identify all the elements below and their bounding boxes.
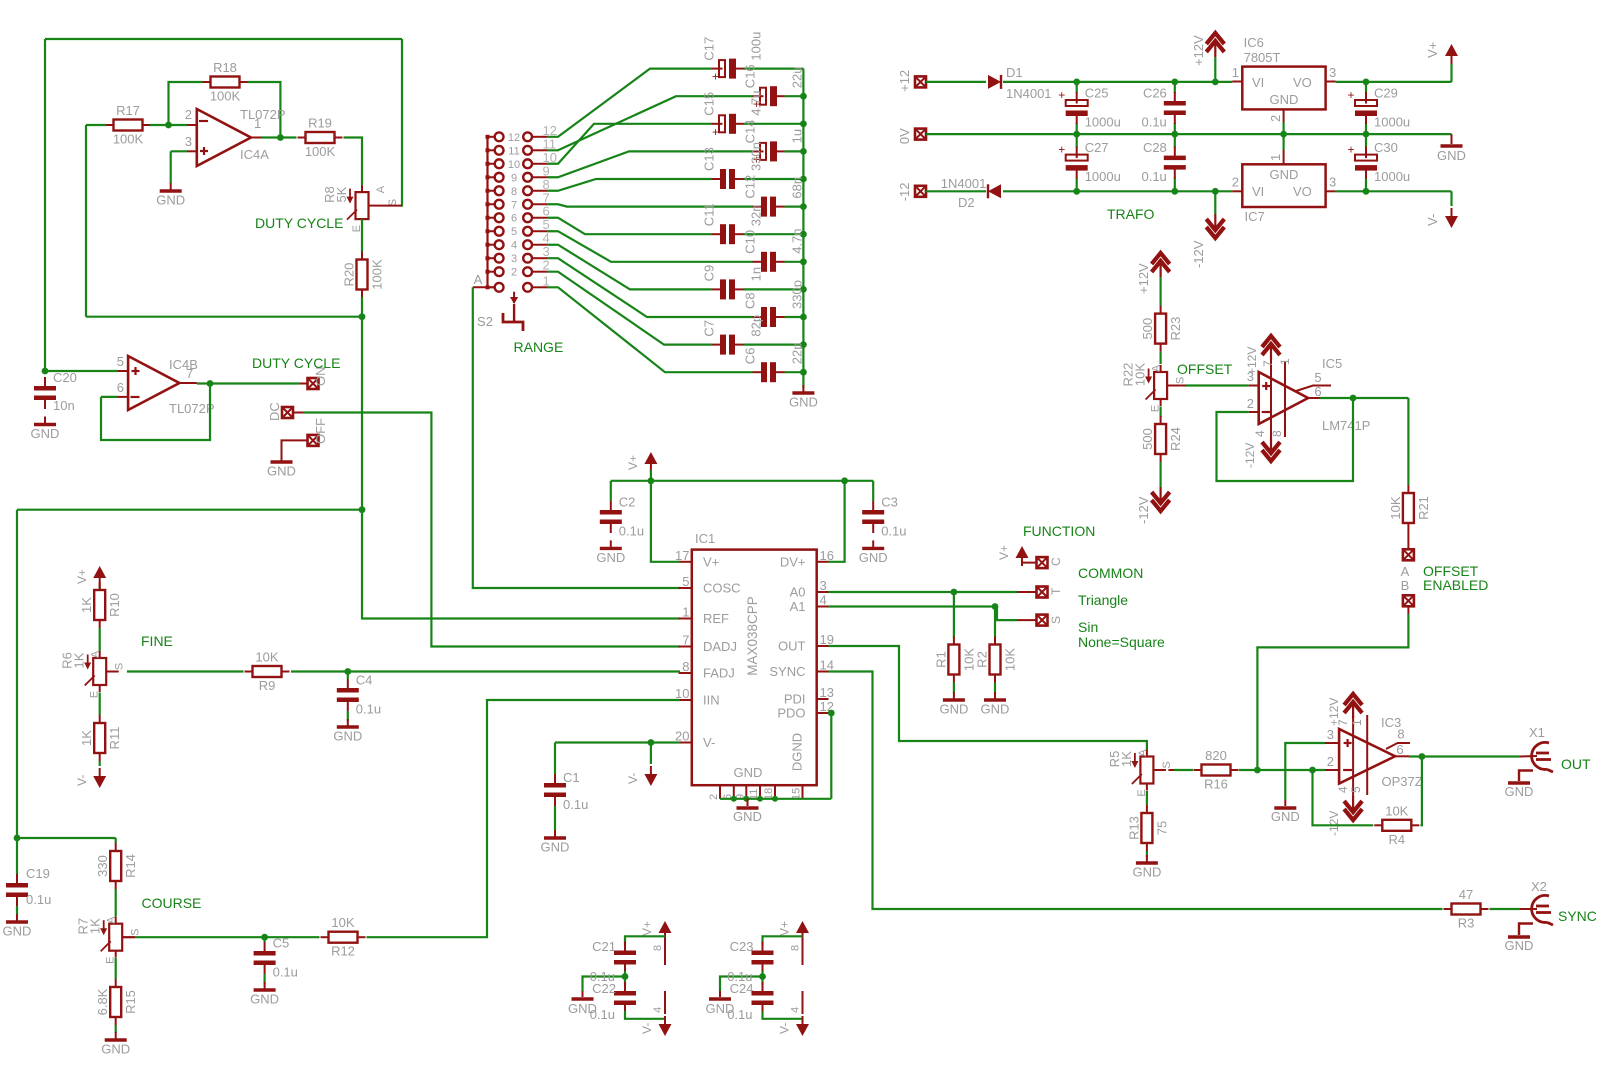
svg-text:10K: 10K [1388,496,1403,519]
svg-text:A: A [1401,564,1410,579]
svg-text:32n: 32n [749,204,764,226]
svg-text:C14: C14 [743,120,758,144]
svg-text:2: 2 [708,794,720,800]
svg-text:5: 5 [1349,786,1363,793]
svg-text:R20: R20 [342,263,357,287]
svg-text:C16: C16 [743,64,758,88]
svg-text:GND: GND [31,426,60,441]
svg-text:C15: C15 [702,92,717,116]
svg-text:V-: V- [703,735,715,750]
svg-text:GND: GND [1270,92,1299,107]
svg-text:5: 5 [117,354,124,369]
svg-text:V+: V+ [626,455,640,470]
svg-text:6: 6 [511,213,517,225]
svg-text:C13: C13 [702,147,717,171]
svg-text:R9: R9 [259,678,276,693]
svg-text:R16: R16 [1204,777,1228,792]
svg-text:GND: GND [596,550,625,565]
svg-text:C26: C26 [1143,86,1167,101]
svg-text:3: 3 [1327,727,1334,742]
svg-text:A: A [1137,749,1149,757]
svg-text:A: A [1151,364,1163,372]
svg-text:FUNCTION: FUNCTION [1023,523,1095,539]
svg-text:4: 4 [790,1007,802,1013]
svg-text:B: B [1401,578,1410,593]
svg-text:0V: 0V [897,128,912,144]
svg-text:10K: 10K [255,650,278,665]
svg-text:2: 2 [1327,754,1334,769]
svg-text:3: 3 [511,253,517,265]
svg-text:1000u: 1000u [1374,115,1410,130]
svg-text:GND: GND [333,729,362,744]
svg-text:IIN: IIN [703,693,720,708]
svg-text:C29: C29 [1374,86,1398,101]
svg-text:7805T: 7805T [1244,50,1281,65]
svg-text:330: 330 [95,855,110,877]
svg-text:2: 2 [185,107,192,122]
svg-text:A1: A1 [790,599,806,614]
svg-text:R12: R12 [331,944,355,959]
svg-text:5: 5 [1314,370,1321,385]
svg-text:S: S [1175,377,1187,384]
svg-text:FINE: FINE [141,633,173,649]
svg-text:10: 10 [508,159,520,171]
svg-text:GND: GND [1505,784,1534,799]
svg-text:1: 1 [1232,65,1239,80]
svg-text:2: 2 [1247,396,1254,411]
svg-text:+12V: +12V [1245,347,1259,375]
svg-text:1N4001: 1N4001 [1006,86,1052,101]
svg-text:A: A [474,272,483,287]
svg-text:1u: 1u [790,129,805,143]
svg-text:GND: GND [1505,938,1534,953]
svg-text:7: 7 [186,366,193,381]
svg-text:8: 8 [1270,430,1284,437]
svg-text:1: 1 [1278,358,1292,365]
svg-text:PDO: PDO [777,706,805,721]
svg-text:GND: GND [733,809,762,824]
svg-text:-12: -12 [897,183,912,202]
svg-text:10K: 10K [1003,648,1018,671]
svg-text:1: 1 [254,116,261,131]
svg-text:OFF: OFF [313,418,328,444]
svg-text:DADJ: DADJ [703,639,737,654]
svg-text:8: 8 [1397,727,1404,742]
svg-text:VI: VI [1252,184,1264,199]
svg-text:19: 19 [820,632,834,647]
svg-text:DUTY CYCLE: DUTY CYCLE [252,355,340,371]
svg-text:PDI: PDI [784,692,806,707]
svg-text:GND: GND [1437,148,1466,163]
svg-text:0.1u: 0.1u [1141,115,1166,130]
svg-text:V-: V- [75,775,89,786]
svg-text:1: 1 [1350,719,1364,726]
svg-text:REF: REF [703,611,729,626]
svg-text:V-: V- [778,1023,792,1034]
svg-text:-12V: -12V [1327,811,1341,836]
svg-text:1n: 1n [749,267,764,281]
svg-text:IC5: IC5 [1322,356,1342,371]
svg-text:0.1u: 0.1u [1141,169,1166,184]
svg-text:+12V: +12V [1327,698,1341,726]
svg-text:7: 7 [511,199,517,211]
svg-text:GND: GND [250,992,279,1007]
svg-text:10K: 10K [1385,803,1408,818]
svg-text:47: 47 [1459,887,1473,902]
svg-text:C9: C9 [702,265,717,282]
svg-text:3: 3 [1329,175,1336,190]
svg-text:17: 17 [675,548,689,563]
svg-text:1: 1 [1268,154,1283,161]
svg-text:GND: GND [267,464,296,479]
svg-text:-12V: -12V [1243,443,1257,468]
svg-text:2: 2 [1232,175,1239,190]
svg-text:V+: V+ [1425,42,1440,58]
svg-text:330p: 330p [790,280,805,309]
svg-text:C19: C19 [26,866,50,881]
svg-text:DV+: DV+ [780,554,806,569]
svg-text:C7: C7 [702,320,717,337]
svg-text:R1: R1 [933,651,948,668]
svg-text:RANGE: RANGE [514,339,564,355]
svg-text:GND: GND [1270,167,1299,182]
svg-text:C1: C1 [563,770,580,785]
svg-text:C11: C11 [702,203,717,226]
svg-text:D1: D1 [1006,65,1023,80]
svg-text:4: 4 [1336,786,1350,793]
svg-text:OUT: OUT [778,639,806,654]
svg-text:13: 13 [820,685,834,700]
svg-text:2: 2 [1268,115,1283,122]
svg-text:0.1u: 0.1u [727,1007,752,1022]
svg-text:IC4A: IC4A [240,147,269,162]
svg-text:IC6: IC6 [1244,35,1264,50]
svg-text:0.1u: 0.1u [356,702,381,717]
svg-text:T: T [1049,587,1063,595]
svg-text:8: 8 [652,945,664,951]
svg-text:C22: C22 [592,981,616,996]
svg-text:0.1u: 0.1u [619,524,644,539]
svg-text:R4: R4 [1388,832,1405,847]
svg-text:GND: GND [3,924,32,939]
svg-text:8: 8 [511,186,517,198]
svg-text:3: 3 [820,578,827,593]
svg-text:IC7: IC7 [1245,209,1265,224]
svg-text:COURSE: COURSE [142,895,202,911]
svg-text:6: 6 [1314,384,1321,399]
svg-text:0.1u: 0.1u [273,965,298,980]
svg-text:820: 820 [1205,748,1227,763]
svg-text:+12: +12 [897,70,912,92]
svg-text:C: C [1049,557,1063,566]
svg-text:R21: R21 [1416,496,1431,520]
svg-text:1000u: 1000u [1085,169,1121,184]
svg-text:R14: R14 [123,854,138,878]
svg-text:OFFSET: OFFSET [1177,361,1233,377]
svg-text:GND: GND [1132,865,1161,880]
svg-text:2: 2 [543,258,550,273]
svg-text:1K: 1K [79,730,94,746]
svg-text:12: 12 [508,132,520,144]
svg-text:DUTY CYCLE: DUTY CYCLE [255,215,343,231]
svg-text:C5: C5 [273,936,290,951]
svg-text:R3: R3 [1458,916,1475,931]
svg-text:5K: 5K [334,186,349,202]
svg-text:Triangle: Triangle [1078,592,1128,608]
svg-text:1N4001: 1N4001 [941,176,987,191]
svg-text:1K: 1K [1119,751,1134,767]
svg-text:OP37Z: OP37Z [1382,774,1423,789]
svg-text:0.1u: 0.1u [590,1007,615,1022]
svg-text:V+: V+ [640,921,654,936]
svg-text:S: S [1161,761,1173,768]
svg-text:7: 7 [682,633,689,648]
svg-text:R10: R10 [107,593,122,617]
svg-text:V+: V+ [778,921,792,936]
svg-text:GND: GND [981,702,1010,717]
svg-text:TRAFO: TRAFO [1107,206,1155,222]
svg-text:8: 8 [682,659,689,674]
svg-text:22p: 22p [790,342,805,364]
svg-text:100K: 100K [370,259,385,290]
svg-text:V+: V+ [997,545,1011,560]
svg-text:Sin: Sin [1078,619,1098,635]
svg-text:FADJ: FADJ [703,666,735,681]
svg-text:C17: C17 [702,37,717,61]
svg-text:IC4B: IC4B [169,357,198,372]
svg-text:TL072P: TL072P [169,401,215,416]
svg-text:+12V: +12V [1191,35,1206,66]
svg-text:75: 75 [1154,821,1169,835]
svg-text:V+: V+ [75,569,89,584]
svg-text:R11: R11 [107,727,122,750]
svg-text:+: + [1058,143,1065,157]
svg-text:1K: 1K [79,597,94,613]
svg-text:C12: C12 [743,175,758,199]
svg-text:DC: DC [267,402,282,421]
svg-text:1: 1 [682,605,689,620]
svg-text:68n: 68n [790,177,805,199]
svg-text:0.1u: 0.1u [563,797,588,812]
svg-text:3: 3 [185,134,192,149]
svg-text:1: 1 [543,273,550,288]
svg-text:4: 4 [1253,430,1267,437]
svg-text:4: 4 [652,1007,664,1013]
svg-text:COMMON: COMMON [1078,565,1143,581]
svg-text:GND: GND [789,395,818,410]
svg-text:0.1u: 0.1u [881,524,906,539]
svg-text:A: A [375,185,387,193]
svg-text:V-: V- [626,773,640,784]
svg-text:100u: 100u [749,32,764,61]
svg-text:20: 20 [675,729,689,744]
svg-text:+: + [1347,88,1354,102]
svg-text:4: 4 [820,593,827,608]
svg-text:+: + [1347,143,1354,157]
svg-text:ENABLED: ENABLED [1423,577,1488,593]
svg-text:R15: R15 [123,990,138,1014]
svg-text:A: A [90,650,102,658]
svg-text:6.8K: 6.8K [95,988,110,1015]
svg-text:4.7u: 4.7u [749,90,764,115]
svg-text:2: 2 [511,267,517,279]
svg-text:VI: VI [1252,75,1264,90]
svg-text:C20: C20 [53,370,77,385]
svg-text:C28: C28 [1143,140,1167,155]
svg-text:IC1: IC1 [695,531,715,546]
svg-text:OUT: OUT [1561,756,1591,772]
svg-text:S: S [114,663,126,670]
svg-text:R23: R23 [1168,317,1183,341]
svg-text:-12V: -12V [1136,496,1151,524]
svg-text:GND: GND [1271,809,1300,824]
svg-text:TL072P: TL072P [240,107,286,122]
svg-text:COSC: COSC [703,581,741,596]
svg-text:11: 11 [508,145,519,157]
svg-text:R24: R24 [1168,427,1183,451]
svg-text:5: 5 [511,226,517,238]
svg-text:C3: C3 [881,495,898,510]
svg-text:500: 500 [1140,428,1155,450]
svg-text:C10: C10 [743,230,758,254]
svg-text:X2: X2 [1531,879,1547,894]
svg-text:D2: D2 [958,195,975,210]
svg-text:4: 4 [511,240,517,252]
svg-text:6: 6 [1396,742,1403,757]
svg-text:SYNC: SYNC [1558,908,1597,924]
svg-text:100K: 100K [305,144,336,159]
svg-text:R2: R2 [975,651,990,668]
svg-text:C4: C4 [356,673,373,688]
svg-text:14: 14 [820,658,834,673]
svg-text:V-: V- [640,1023,654,1034]
svg-text:1000u: 1000u [1374,169,1410,184]
svg-text:3: 3 [1329,65,1336,80]
svg-text:-12V: -12V [1191,240,1206,268]
svg-text:4.7n: 4.7n [790,228,805,253]
svg-text:+: + [712,70,719,84]
svg-text:1K: 1K [72,652,87,668]
svg-text:+12V: +12V [1136,263,1151,294]
svg-text:7: 7 [1261,360,1275,367]
svg-text:VO: VO [1293,184,1312,199]
svg-text:C23: C23 [730,939,754,954]
svg-text:C24: C24 [730,981,754,996]
svg-text:C6: C6 [743,348,758,365]
svg-text:GND: GND [541,840,570,855]
svg-text:C21: C21 [592,939,616,954]
svg-text:S: S [1049,616,1063,624]
svg-text:GND: GND [859,550,888,565]
svg-text:A: A [106,916,118,924]
svg-text:C30: C30 [1374,140,1398,155]
svg-text:X1: X1 [1529,725,1545,740]
svg-text:S: S [130,929,142,936]
svg-text:V-: V- [1425,214,1440,226]
svg-text:GND: GND [156,193,185,208]
svg-text:A0: A0 [790,585,806,600]
svg-text:DGND: DGND [790,733,805,771]
svg-text:S2: S2 [477,314,493,329]
svg-text:C27: C27 [1085,140,1109,155]
svg-text:R18: R18 [213,60,237,75]
svg-text:330n: 330n [749,142,764,171]
svg-text:GND: GND [101,1042,130,1057]
svg-text:GND: GND [734,765,763,780]
svg-text:10K: 10K [331,915,354,930]
svg-text:82p: 82p [749,315,764,337]
svg-text:100K: 100K [113,132,144,147]
svg-text:LM741P: LM741P [1322,418,1370,433]
svg-text:+: + [712,125,719,139]
svg-text:C2: C2 [619,495,636,510]
svg-text:1K: 1K [88,918,103,934]
svg-text:+: + [1058,88,1065,102]
svg-text:6: 6 [117,380,124,395]
svg-text:V+: V+ [703,554,719,569]
svg-text:5: 5 [682,574,689,589]
svg-text:16: 16 [820,548,834,563]
svg-text:C25: C25 [1085,86,1109,101]
svg-text:0.1u: 0.1u [26,892,51,907]
svg-text:VO: VO [1293,75,1312,90]
svg-text:R19: R19 [308,116,332,131]
svg-text:10: 10 [675,686,689,701]
svg-text:None=Square: None=Square [1078,634,1165,650]
svg-text:C8: C8 [743,292,758,309]
svg-text:SYNC: SYNC [769,664,805,679]
svg-text:22u: 22u [790,66,805,88]
svg-text:500: 500 [1140,318,1155,340]
svg-text:9: 9 [511,172,517,184]
svg-text:8: 8 [790,945,802,951]
svg-text:MAX038CPP: MAX038CPP [745,596,760,676]
svg-text:10n: 10n [53,398,75,413]
svg-text:1000u: 1000u [1085,115,1121,130]
svg-text:10K: 10K [1133,363,1148,386]
svg-text:GND: GND [939,702,968,717]
svg-text:100K: 100K [210,89,241,104]
svg-text:R13: R13 [1126,816,1141,840]
svg-text:R17: R17 [116,103,140,118]
